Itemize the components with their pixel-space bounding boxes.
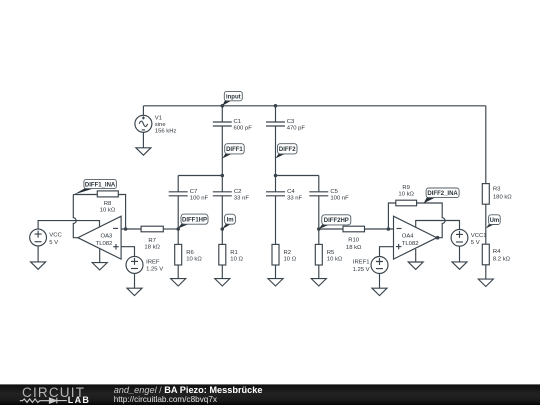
ground below VCC (31, 262, 46, 269)
op-amp OA3 (78, 216, 121, 259)
footer bar (0, 384, 540, 405)
svg-text:VCC1: VCC1 (471, 233, 487, 239)
wire top rail (143, 105, 485, 107)
svg-text:R3: R3 (493, 187, 501, 193)
voltage source IREF (126, 256, 163, 273)
svg-text:R6: R6 (186, 250, 194, 256)
svg-text:100 nF: 100 nF (330, 196, 349, 202)
svg-text:DIFF1: DIFF1 (226, 147, 243, 153)
wire R4 to ground (485, 265, 487, 279)
wire OA3 inverting input (121, 228, 141, 230)
svg-text:10 kΩ: 10 kΩ (327, 257, 343, 263)
wire C2 to R1 (221, 196, 223, 244)
wire OA4 V+ to VCC1 (416, 221, 460, 230)
resistor R7 (141, 226, 163, 250)
svg-text:C1: C1 (234, 119, 242, 125)
svg-text:10 kΩ: 10 kΩ (398, 192, 414, 198)
ground below R6 (171, 279, 186, 286)
svg-text:IREF1: IREF1 (353, 260, 370, 266)
svg-text:Im: Im (227, 218, 234, 224)
svg-text:R8: R8 (104, 201, 112, 207)
svg-text:C7: C7 (190, 189, 198, 195)
resistor R10 (343, 226, 365, 251)
logo resistor zigzag and diode (20, 398, 67, 404)
resistor R5 (315, 244, 343, 265)
junction DIFF2HP (317, 227, 321, 231)
wire OA4 noninverting to IREF1 (380, 247, 394, 257)
wire C2 column (221, 176, 223, 192)
svg-text:R10: R10 (348, 238, 360, 244)
junction C3 top (274, 104, 278, 108)
resistor R1 (219, 244, 244, 265)
svg-text:and_engel / BA Piezo: Messbrüc: and_engel / BA Piezo: Messbrücke (114, 385, 263, 395)
svg-text:470 pF: 470 pF (287, 126, 306, 132)
wire C7 top stub (177, 176, 179, 192)
capacitor C5 (309, 189, 349, 202)
wire R1 to ground (221, 265, 223, 279)
wire C5 to R5 (318, 196, 320, 244)
wire VCC to ground (37, 246, 39, 262)
junction OA4 output (436, 236, 440, 240)
wire R8 right (118, 195, 126, 230)
svg-text:10 Ω: 10 Ω (230, 257, 243, 263)
resistor R8 (97, 191, 118, 214)
svg-text:TL082: TL082 (402, 241, 419, 247)
node DIFF2HP (319, 215, 351, 229)
svg-text:600 pF: 600 pF (234, 126, 253, 132)
ground below IREF1 (372, 288, 387, 295)
wire R5 to ground (318, 265, 320, 279)
ground below OA4 (408, 262, 423, 269)
capacitor C3 (266, 119, 305, 132)
svg-text:DIFF2: DIFF2 (279, 147, 296, 153)
svg-text:18 kΩ: 18 kΩ (144, 245, 160, 251)
wire C1 column top (221, 106, 223, 122)
wire C5 horizontal link (276, 175, 319, 177)
wire C3 column top (275, 106, 277, 122)
svg-text:18 kΩ: 18 kΩ (346, 245, 362, 251)
svg-text:VCC: VCC (49, 233, 62, 239)
node DIFF2 (276, 144, 297, 159)
svg-text:DIFF1_INA: DIFF1_INA (85, 182, 116, 188)
svg-text:http://circuitlab.com/c8bvq7x: http://circuitlab.com/c8bvq7x (114, 395, 217, 404)
wire VCC1 to ground (459, 246, 461, 262)
svg-text:156 kHz: 156 kHz (155, 129, 177, 135)
ground below OA3 (92, 263, 107, 270)
svg-text:C4: C4 (287, 189, 295, 195)
wire R2 to ground (275, 265, 277, 279)
wire OA3 noninverting to IREF (121, 247, 134, 257)
capacitor C4 (266, 189, 303, 202)
svg-text:10 kΩ: 10 kΩ (100, 208, 116, 214)
junction C3/C4/C5 (274, 174, 278, 178)
svg-text:C5: C5 (330, 189, 338, 195)
junction Im node (221, 227, 225, 231)
wire IREF to ground (134, 273, 136, 288)
svg-text:R1: R1 (230, 250, 238, 256)
voltage source VCC (30, 229, 63, 246)
junction input/C1 (221, 104, 225, 108)
svg-text:R2: R2 (284, 250, 292, 256)
svg-text:LAB: LAB (68, 395, 90, 405)
node DIFF1HP (178, 214, 208, 229)
node Um (486, 215, 500, 229)
ground below V1 (136, 148, 151, 155)
wire junction to R9 (388, 203, 395, 229)
wire R9 to OA4 output with hop (417, 203, 446, 238)
ground below IREF (127, 288, 142, 295)
svg-text:TL082: TL082 (96, 241, 113, 247)
svg-text:input: input (226, 94, 241, 100)
op-amp OA4 (394, 216, 437, 259)
voltage source IREF1 (353, 257, 388, 274)
node Im (222, 214, 235, 229)
wire R7 to DIFF1HP (163, 228, 178, 230)
svg-text:R4: R4 (493, 249, 501, 255)
svg-text:DIFF2_INA: DIFF2_INA (427, 191, 458, 197)
svg-text:C3: C3 (287, 119, 295, 125)
svg-text:100 nF: 100 nF (190, 196, 209, 202)
wire OA4 V- stub (415, 249, 417, 262)
node DIFF1 (222, 144, 244, 159)
ground below R2 (268, 279, 283, 286)
wire R3 to R4 through Um (485, 204, 487, 244)
svg-text:5 V: 5 V (49, 240, 58, 246)
wire OA3 V- stub (99, 249, 101, 263)
wire C3 to node row (275, 126, 277, 176)
ground below R4 (478, 279, 493, 286)
junction R10/R9/OA4 (387, 227, 391, 231)
voltage source VCC1 (451, 229, 486, 246)
svg-text:180 kΩ: 180 kΩ (493, 195, 512, 201)
wire right column input to R3 (485, 106, 487, 184)
wire C1 to node row (221, 126, 223, 176)
wire VCC to OA3 V+ (38, 221, 99, 230)
svg-text:1.25 V: 1.25 V (146, 267, 163, 273)
ground below R1 (215, 279, 230, 286)
node input (222, 91, 242, 105)
svg-text:10 kΩ: 10 kΩ (186, 257, 202, 263)
wire IREF1 to ground (379, 274, 381, 289)
svg-text:R5: R5 (327, 250, 335, 256)
junction C1/C2/C7 (221, 174, 225, 178)
svg-text:sine: sine (155, 122, 167, 128)
resistor R3 (482, 184, 512, 205)
capacitor C7 (169, 189, 209, 202)
resistor R2 (272, 244, 297, 265)
junction R8/R7/OA3 (124, 227, 128, 231)
capacitor C2 (213, 189, 250, 202)
svg-text:Um: Um (490, 218, 500, 224)
svg-text:33 nF: 33 nF (234, 196, 249, 202)
wire C7 horizontal link (178, 175, 222, 177)
svg-text:1.25 V: 1.25 V (353, 267, 370, 273)
wire R8 left (73, 194, 97, 196)
resistor R4 (482, 244, 510, 265)
svg-text:OA4: OA4 (402, 234, 415, 240)
svg-text:DIFF2HP: DIFF2HP (324, 218, 349, 224)
resistor R6 (175, 244, 203, 265)
svg-text:10 Ω: 10 Ω (284, 257, 297, 263)
svg-text:8.2 kΩ: 8.2 kΩ (493, 256, 511, 262)
svg-text:DIFF1HP: DIFF1HP (182, 218, 207, 224)
svg-text:OA3: OA3 (101, 234, 114, 240)
svg-text:V1: V1 (155, 116, 162, 122)
svg-text:R7: R7 (148, 238, 156, 244)
svg-text:R9: R9 (402, 185, 410, 191)
svg-text:C2: C2 (234, 189, 242, 195)
node DIFF2_INA (424, 188, 460, 203)
wire R10 to OA4 inverting input (365, 228, 394, 230)
wire OA3 feedback with hop (73, 195, 78, 238)
svg-text:5 V: 5 V (471, 240, 480, 246)
node DIFF1_INA (74, 179, 116, 194)
wire R6 to ground (177, 265, 179, 279)
wire V1 top stub (142, 106, 144, 116)
wire V1 to ground (142, 132, 144, 147)
junction DIFF1HP (176, 227, 180, 231)
svg-text:IREF: IREF (146, 260, 160, 266)
svg-text:33 nF: 33 nF (287, 196, 302, 202)
ground below R5 (311, 279, 326, 286)
capacitor C1 (213, 119, 252, 132)
resistor R9 (396, 185, 417, 206)
wire C5 top stub (318, 176, 320, 192)
wire DIFF2HP to R10 (319, 228, 343, 230)
ground below VCC1 (452, 262, 467, 269)
voltage source V1 (135, 115, 177, 134)
wire C7 to R6 (177, 196, 179, 244)
wire C4 to R2 (275, 196, 277, 244)
wire C4 column (275, 176, 277, 192)
